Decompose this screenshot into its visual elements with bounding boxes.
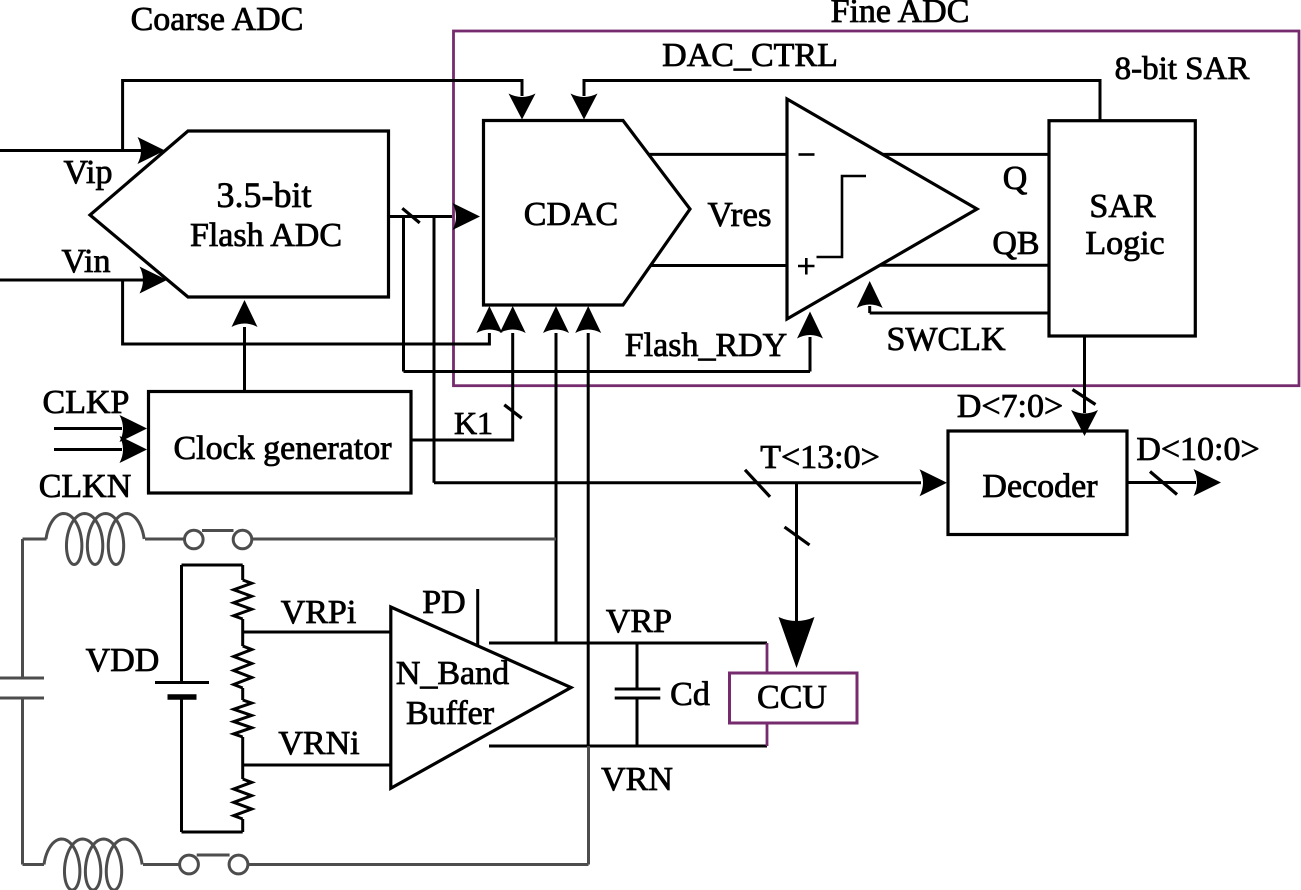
svg-text:VRP: VRP — [606, 603, 672, 640]
svg-text:Fine ADC: Fine ADC — [831, 0, 970, 30]
svg-text:Flash ADC: Flash ADC — [190, 217, 342, 254]
svg-text:CLKP: CLKP — [43, 384, 130, 421]
svg-text:CLKN: CLKN — [39, 468, 132, 505]
svg-text:T<13:0>: T<13:0> — [760, 439, 880, 476]
svg-text:VRN: VRN — [601, 761, 673, 798]
svg-text:Vip: Vip — [64, 154, 113, 191]
svg-text:SAR: SAR — [1089, 188, 1155, 225]
svg-text:Decoder: Decoder — [982, 468, 1098, 505]
svg-text:Flash_RDY: Flash_RDY — [625, 327, 787, 364]
svg-text:PD: PD — [422, 584, 465, 621]
svg-text:DAC_CTRL: DAC_CTRL — [662, 37, 838, 74]
svg-text:N_Band: N_Band — [396, 655, 509, 692]
svg-text:3.5-bit: 3.5-bit — [217, 175, 312, 215]
svg-text:Buffer: Buffer — [406, 695, 495, 732]
svg-text:8-bit SAR: 8-bit SAR — [1115, 51, 1250, 87]
svg-text:Q: Q — [1003, 160, 1028, 197]
svg-text:SWCLK: SWCLK — [887, 321, 1006, 358]
svg-text:Clock generator: Clock generator — [173, 430, 392, 467]
svg-text:VRPi: VRPi — [281, 594, 357, 631]
svg-text:D<10:0>: D<10:0> — [1136, 431, 1259, 468]
svg-text:VDD: VDD — [86, 642, 160, 679]
svg-text:Vres: Vres — [708, 195, 772, 234]
svg-text:Cd: Cd — [670, 676, 710, 713]
svg-text:Coarse ADC: Coarse ADC — [131, 1, 304, 38]
svg-text:CCU: CCU — [757, 679, 827, 716]
svg-text:K1: K1 — [454, 405, 493, 441]
svg-text:Logic: Logic — [1085, 225, 1164, 262]
svg-text:QB: QB — [992, 225, 1039, 262]
svg-text:VRNi: VRNi — [278, 725, 359, 762]
svg-text:D<7:0>: D<7:0> — [957, 388, 1063, 425]
svg-text:Vin: Vin — [62, 243, 111, 280]
svg-text:CDAC: CDAC — [524, 196, 618, 233]
